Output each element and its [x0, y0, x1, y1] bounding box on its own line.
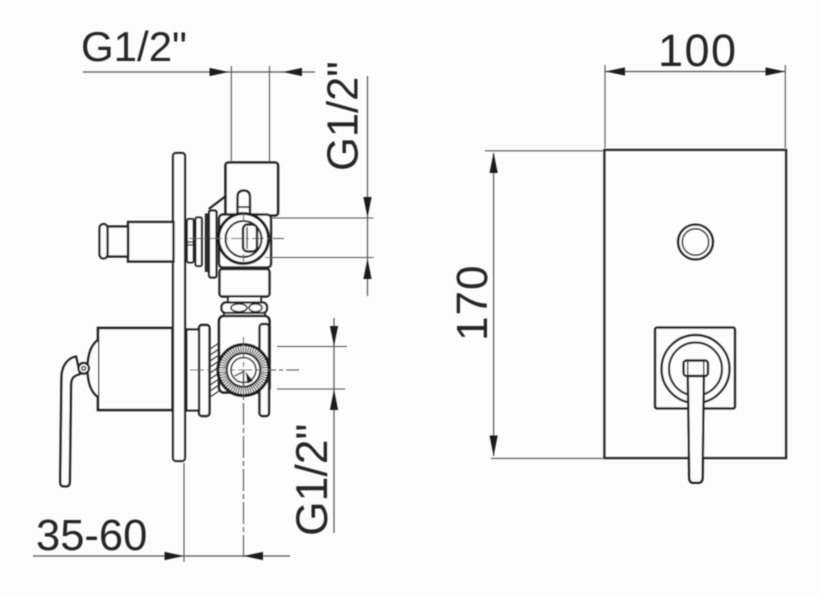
centerline upper horizontal	[189, 238, 284, 240]
shower outlet spout: right section	[128, 222, 174, 262]
diverter knob slot	[243, 225, 257, 252]
extension line y389	[277, 388, 345, 390]
lower right flange bar	[260, 324, 270, 416]
lower left flange bar	[199, 325, 210, 416]
upper valve body	[219, 215, 271, 268]
handle shaft	[688, 370, 704, 483]
stub cylinder on block	[238, 191, 251, 216]
dim line bottom	[33, 555, 290, 557]
upper flange bar A	[187, 219, 194, 263]
lower knurled bonnet outer circle	[218, 345, 269, 396]
svg-text:100: 100	[658, 25, 738, 76]
hatch transition	[210, 343, 219, 397]
button inner circle	[682, 229, 708, 255]
lower bonnet inner disc	[231, 358, 256, 383]
upper bonnet inner circle	[226, 221, 262, 257]
lever arm	[60, 357, 80, 487]
lower valve body	[219, 316, 270, 393]
centerline lower horizontal	[190, 369, 299, 371]
dim line 170	[493, 153, 495, 456]
handle outer circle	[662, 335, 730, 403]
extension line y257	[265, 257, 374, 259]
extension line right	[269, 66, 271, 162]
svg-text:35-60: 35-60	[36, 512, 147, 560]
dim line upper right vertical	[367, 76, 369, 296]
arrow right-pointing	[210, 68, 229, 76]
arrow left-pointing	[283, 68, 302, 76]
extension line right	[784, 65, 786, 148]
top connection block	[226, 163, 279, 216]
thin ring	[224, 313, 265, 318]
dim line lower right vertical: upper part with down arrow	[333, 318, 335, 533]
lower bonnet mid circle	[227, 353, 261, 387]
svg-text:G1/2": G1/2"	[320, 61, 368, 171]
arrow left-pointing at centerline	[244, 552, 264, 560]
neck ring	[228, 297, 261, 303]
shower outlet spout: mid section	[108, 227, 129, 257]
centerline upper vertical ticks	[243, 213, 245, 222]
svg-text:G1/2": G1/2"	[81, 23, 187, 70]
shower outlet spout: tip	[100, 224, 108, 259]
upper bonnet outer circle	[219, 214, 269, 264]
sleeve between plate and flange	[187, 330, 200, 411]
lower part with up arrow	[330, 390, 338, 411]
handle knob	[684, 361, 709, 377]
extension line left	[604, 65, 606, 148]
wall plate (side profile)	[173, 153, 185, 461]
extension line y218	[271, 217, 374, 219]
extension line plate edge	[183, 463, 185, 562]
svg-text:170: 170	[448, 265, 497, 341]
upper flange dark band	[205, 214, 209, 273]
extension line y346	[277, 346, 347, 348]
extension line bottom	[491, 457, 604, 459]
extension line top	[485, 150, 604, 152]
hub cylinder of lever (behind plate, left)	[98, 328, 173, 410]
dim line top	[83, 71, 315, 73]
arrow up	[363, 259, 371, 280]
arrow down	[363, 197, 371, 218]
arrow right-pointing at plate	[165, 552, 185, 560]
nut band	[222, 303, 268, 314]
knurl ticks	[219, 346, 268, 395]
square escutcheon	[655, 328, 735, 409]
lever pivot	[78, 363, 89, 374]
svg-text:G1/2": G1/2"	[288, 424, 337, 536]
pointer inside disc	[243, 370, 245, 385]
upper flange bar B	[196, 218, 202, 267]
front plate rectangle	[605, 150, 787, 458]
dim line 100	[605, 71, 786, 73]
gusset diagonal	[209, 196, 227, 210]
middle stack: section below upper valve	[220, 269, 270, 297]
hub ball bulge	[88, 340, 98, 397]
handle mid circle	[669, 343, 722, 396]
upper flange bar C	[209, 211, 217, 278]
button outer circle	[678, 225, 713, 260]
centerline lower vertical, extended to bottom dimension	[243, 337, 245, 560]
extension line left	[230, 66, 232, 162]
